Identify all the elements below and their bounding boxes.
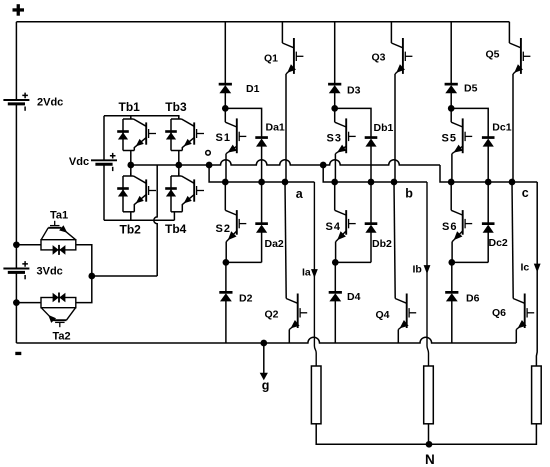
node S5-S6 midpoint: [448, 179, 455, 186]
transistor Q1: [282, 38, 303, 74]
wire Db1 down to midpoint line: [370, 146, 372, 182]
wire load c to neutral: [429, 424, 537, 445]
svg-text:Ic: Ic: [521, 261, 530, 273]
node D5-S5: [448, 105, 455, 112]
wire Dc1 down to midpoint line: [487, 146, 489, 182]
wire Tb3 to midpoint: [178, 151, 180, 166]
wire b lower link: [335, 261, 371, 263]
diode Dc1: [482, 136, 495, 146]
wire midpoint line and bus o: [131, 160, 440, 165]
svg-text:Q6: Q6: [492, 307, 506, 319]
svg-text:Da2: Da2: [265, 238, 284, 250]
diode Tb3 series: [165, 130, 177, 139]
wire node to S3: [334, 108, 336, 122]
diode Db2: [365, 222, 378, 232]
node S2-D2: [223, 259, 230, 266]
arrow Ic: [534, 264, 541, 273]
wire midpoint to Da2: [261, 182, 263, 223]
diode Tb1 series: [117, 130, 129, 139]
wire S2 emitter down: [225, 242, 227, 263]
diode Da2: [255, 222, 268, 232]
node N (neutral): [426, 441, 433, 448]
svg-text:Db1: Db1: [374, 122, 394, 134]
wire phase a midpoint line: [225, 181, 314, 183]
svg-text:Dc2: Dc2: [489, 237, 508, 249]
wire midpoint to Dc2: [487, 182, 489, 223]
arrow ground: [260, 373, 268, 380]
transistor Tb1: [123, 119, 156, 151]
diode D6: [445, 291, 458, 301]
wire phase b midpoint line: [335, 181, 427, 183]
wire Da1 down to midpoint line: [261, 146, 263, 182]
wire Ta2 right: [76, 276, 92, 303]
svg-text:Da1: Da1: [266, 121, 285, 133]
svg-text:Vdc: Vdc: [69, 156, 89, 168]
wire S1 emitter down: [225, 154, 227, 182]
wire D5 to node: [450, 93, 452, 109]
wire D3 to node: [334, 93, 336, 109]
wire node to S1: [224, 108, 226, 122]
battery 2Vdc: [3, 93, 29, 111]
wire bus end dropper leg c: [440, 165, 451, 182]
wire top rail: [16, 21, 509, 23]
wire Q4 emitter to bottom rail: [397, 330, 399, 344]
node Tb1-Tb2 midpoint: [127, 162, 134, 169]
wire D1 to node: [224, 93, 226, 109]
wire Da2 down: [261, 232, 263, 262]
wire D4 to bottom rail: [334, 301, 336, 343]
diode Ta1 (bidirectional): [53, 245, 66, 255]
transistor Q6: [513, 294, 534, 330]
node D1-S1: [222, 105, 229, 112]
node o (bus tap leg a): [206, 162, 213, 169]
svg-text:D4: D4: [347, 291, 361, 303]
wire c lower link: [452, 261, 488, 263]
resistor load a: [311, 366, 321, 424]
wire bridge top rail: [104, 116, 179, 119]
wire Q6 emitter to bottom rail: [515, 330, 517, 344]
svg-text:S5: S5: [442, 133, 458, 145]
diode D1: [219, 83, 232, 93]
node Q3-Q4 midpoint (phase b): [391, 179, 398, 186]
wire midpoint to Db2: [370, 182, 372, 223]
wire S4 emitter down: [335, 242, 337, 263]
arrow Ib: [424, 265, 431, 274]
wire bridge midpoint down to Ta junction: [154, 165, 157, 276]
diode Tb4 series: [165, 187, 177, 196]
wire ground stem: [263, 343, 265, 375]
battery 3Vdc: [3, 261, 29, 279]
transistor Ta2: [41, 298, 76, 328]
diode Da1: [255, 136, 268, 146]
wire bridge left lower: [103, 164, 105, 220]
wire Db2 down: [370, 232, 372, 262]
node Q5-Q6 midpoint (phase c): [509, 179, 516, 186]
svg-text:Q5: Q5: [486, 49, 500, 61]
svg-text:b: b: [405, 186, 413, 200]
svg-text:S2: S2: [216, 223, 232, 235]
svg-text:S1: S1: [216, 132, 232, 144]
transistor Q5: [509, 38, 530, 74]
svg-text:Tb1: Tb1: [119, 100, 141, 114]
node S6-D6: [448, 259, 455, 266]
transistor Tb4: [171, 176, 204, 212]
diode Tb2 series: [117, 187, 129, 196]
wire left rail middle segment: [15, 104, 17, 269]
wire phase a to load: [314, 182, 316, 366]
resistor load b: [424, 366, 434, 424]
node Dc1-Dc2 midpoint: [485, 179, 492, 186]
svg-text:Tb3: Tb3: [165, 100, 187, 114]
svg-text:g: g: [262, 378, 270, 392]
svg-text:Q2: Q2: [265, 309, 279, 321]
wire Tb2 collector stub: [130, 173, 132, 176]
node Ta junction: [88, 273, 95, 280]
wire Tb4 collector stub: [178, 173, 180, 176]
svg-text:a: a: [296, 187, 304, 201]
arrow Ia: [311, 269, 318, 278]
svg-text:D2: D2: [239, 293, 253, 305]
node S4-D4: [332, 259, 339, 266]
label o node circle: [206, 151, 211, 156]
wire phase c to load: [535, 182, 538, 366]
wire node to D4: [334, 262, 336, 292]
wire bus dropper leg a: [209, 165, 225, 182]
svg-text:Tb2: Tb2: [120, 223, 142, 237]
diode Db1: [365, 136, 378, 146]
wire load a to neutral: [316, 424, 428, 445]
wire phase node to Q6: [512, 182, 513, 299]
diode Dc2: [482, 222, 495, 232]
wire node to D2: [225, 262, 227, 292]
transistor S2: [225, 210, 246, 242]
wire D6 to bottom rail: [451, 301, 453, 343]
svg-text:Ta2: Ta2: [53, 330, 71, 342]
transistor S1: [225, 118, 246, 153]
transistor S4: [335, 210, 356, 242]
diode D3: [328, 83, 341, 93]
wire Ta1 left: [16, 244, 41, 246]
svg-text:N: N: [425, 452, 435, 467]
wire Q2 emitter to bottom rail: [288, 330, 290, 344]
wire Tb4 top stub: [178, 165, 180, 176]
node Da1-Da2 midpoint: [258, 179, 265, 186]
transistor Q3: [391, 38, 412, 74]
svg-text:Dc1: Dc1: [492, 121, 511, 133]
transistor S6: [451, 210, 472, 242]
diode D5: [445, 83, 458, 93]
node left rail / Ta1: [13, 241, 20, 248]
wire Tb4 bottom stub: [173, 212, 175, 221]
svg-text:Ib: Ib: [413, 264, 422, 276]
wire midpoint to S4: [334, 182, 336, 210]
wire midpoint to S6: [450, 182, 452, 210]
wire bridge bottom rail: [104, 219, 174, 221]
wire left rail upper segment: [15, 22, 17, 100]
wire midpoint to S2: [224, 182, 226, 210]
wire phase node to Q2: [285, 182, 286, 299]
svg-text:Tb4: Tb4: [165, 222, 187, 236]
svg-text:Q3: Q3: [372, 51, 386, 63]
svg-text:D3: D3: [347, 84, 361, 96]
transistor Tb3: [171, 119, 204, 151]
diode D4: [329, 291, 342, 301]
wire top rail to Q3: [390, 22, 392, 43]
svg-text:Ta1: Ta1: [50, 209, 68, 221]
wire phase c midpoint line: [451, 181, 537, 183]
wire bottom rail: [16, 337, 516, 343]
wire bridge left upper: [103, 116, 105, 161]
wire load b to neutral: [428, 424, 430, 445]
wire Q5 emitter to phase node: [512, 74, 514, 182]
diode D2: [219, 291, 232, 301]
node S1-S2 midpoint: [222, 179, 229, 186]
svg-text:S3: S3: [327, 133, 343, 145]
wire top rail to Q1: [281, 22, 283, 43]
wire Q3 emitter to phase node: [394, 74, 396, 182]
wire Tb1 collector stub: [130, 116, 132, 119]
node left rail / Ta2: [13, 299, 20, 306]
node Tb3-Tb4 midpoint: [175, 162, 182, 169]
wire a lower link: [226, 261, 262, 263]
wire S3 emitter down: [334, 154, 336, 182]
svg-text:2Vdc: 2Vdc: [37, 96, 63, 108]
transistor Q2: [286, 294, 307, 330]
transistor S5: [451, 118, 472, 153]
wire Ta2 left: [16, 302, 41, 304]
wire S5 emitter down: [451, 154, 453, 182]
wire Ta1 right: [76, 245, 92, 276]
svg-text:D1: D1: [246, 83, 260, 95]
wire top rail to D5: [450, 22, 452, 84]
svg-text:Db2: Db2: [372, 238, 392, 250]
wire Tb3 collector stub: [178, 116, 180, 119]
transistor S3: [335, 118, 356, 153]
wire left rail lower segment: [15, 272, 17, 343]
wire Tb2 top stub: [130, 165, 132, 176]
wire node to D6: [451, 262, 453, 292]
wire top rail to D3: [334, 22, 336, 84]
svg-text:Q4: Q4: [376, 309, 390, 321]
node bus tap leg b: [320, 162, 327, 169]
svg-text:Ia: Ia: [302, 267, 311, 279]
wire bus dropper leg b: [323, 165, 335, 182]
svg-text:S6: S6: [442, 221, 458, 233]
wire phase node to Q4: [394, 182, 395, 299]
svg-text:D6: D6: [466, 293, 480, 305]
svg-text:Q1: Q1: [264, 52, 278, 64]
wire Ta junction to bridge: [92, 275, 157, 277]
transistor Q4: [395, 294, 416, 330]
wire Dc2 down: [487, 232, 489, 262]
wire Tb2 bottom stub: [130, 212, 132, 221]
battery Vdc: [91, 153, 117, 171]
svg-text:3Vdc: 3Vdc: [37, 265, 63, 277]
resistor load c: [532, 366, 542, 424]
diode Ta2 (bidirectional): [53, 293, 66, 303]
svg-text:S4: S4: [326, 221, 342, 233]
svg-text:c: c: [522, 186, 529, 200]
wire top rail to D1: [224, 22, 226, 84]
node ground tap: [260, 340, 267, 347]
wire Tb1 to midpoint: [130, 151, 132, 166]
label - (negative dc terminal): [15, 352, 21, 355]
wire D2 to bottom rail: [225, 301, 227, 343]
transistor Ta1: [41, 221, 76, 250]
node S3-S4 midpoint: [331, 179, 338, 186]
node D3-S3: [331, 105, 338, 112]
node Db1-Db2 midpoint: [368, 179, 375, 186]
wire node to Da1: [225, 108, 261, 137]
wire Q1 emitter to phase node: [285, 74, 287, 182]
node Q1-Q2 midpoint (phase a): [282, 179, 289, 186]
transistor Tb2: [123, 176, 156, 212]
label + (positive dc terminal): [13, 4, 25, 16]
wire phase b to load: [427, 182, 429, 366]
wire node to Dc1: [451, 108, 488, 137]
wire node to S5: [450, 108, 452, 122]
wire top rail to Q5: [508, 22, 510, 43]
wire node to Db1: [335, 108, 371, 137]
svg-text:D5: D5: [464, 82, 478, 94]
wire S6 emitter down: [451, 242, 453, 263]
